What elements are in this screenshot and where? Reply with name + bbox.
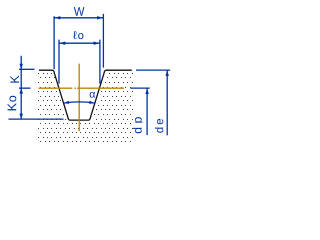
dimension lo arrowheads xyxy=(59,42,65,45)
centerline (vertical) xyxy=(78,64,80,132)
K/Ko arrowheads xyxy=(19,64,23,70)
alpha arrowheads xyxy=(64,101,69,104)
label dp xyxy=(133,117,144,133)
dimension lo line xyxy=(59,42,100,44)
dimension W extension lines xyxy=(54,14,103,69)
label de xyxy=(155,119,163,133)
pulley material section (stippled) xyxy=(38,73,133,142)
dimension lo extension lines xyxy=(59,40,100,84)
label K xyxy=(10,75,19,82)
label lo xyxy=(73,31,83,39)
dp arrowhead xyxy=(145,88,149,94)
label W xyxy=(74,7,85,16)
label alpha xyxy=(90,92,95,98)
K/Ko reference stubs xyxy=(9,69,64,119)
datum pitch line (horizontal, centerline dashes) xyxy=(39,87,73,89)
dimension W arrowheads xyxy=(54,16,60,19)
dimension dp line xyxy=(146,88,148,135)
label Ko xyxy=(8,96,17,111)
dimension alpha arc xyxy=(64,102,95,103)
dimension W line xyxy=(54,17,103,19)
de arrowhead xyxy=(165,70,169,76)
dimension de stub xyxy=(136,69,170,71)
groove profile outline xyxy=(39,70,132,120)
dimension K/Ko line xyxy=(20,56,22,119)
dimension de line xyxy=(166,70,168,135)
dimension dp stub xyxy=(130,87,149,89)
